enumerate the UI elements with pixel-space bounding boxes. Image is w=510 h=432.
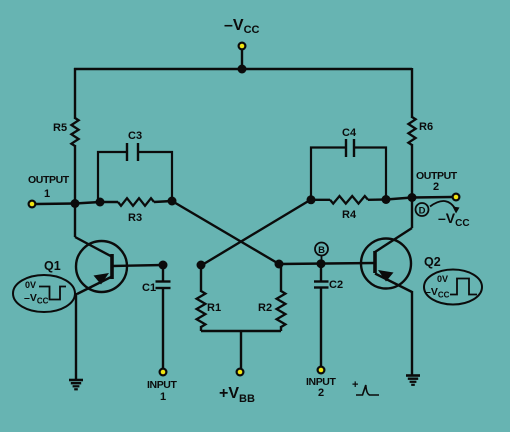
wire R1 bottom lead — [200, 326, 202, 331]
resistor R3 — [118, 198, 154, 206]
resistor R1 — [197, 291, 206, 327]
label -Vcc supply — [224, 17, 260, 36]
terminal -Vcc — [238, 42, 247, 51]
wire top rail — [74, 68, 412, 70]
annotation input2 trigger spike — [352, 379, 379, 395]
svg-text:C2: C2 — [329, 279, 343, 291]
label OUTPUT 2 — [416, 170, 458, 193]
node B — [315, 243, 328, 264]
wire VBB lead — [240, 331, 242, 368]
node junction collector1/cross — [168, 197, 177, 206]
node junction C4 right — [382, 195, 391, 204]
node junction C1 — [159, 261, 168, 270]
svg-text:R5: R5 — [53, 122, 67, 134]
svg-text:2: 2 — [318, 387, 324, 399]
terminal OUTPUT 2 — [452, 193, 461, 202]
wire output1 terminal — [36, 202, 75, 205]
wire R2 bottom lead — [280, 326, 282, 331]
label R1 — [207, 302, 221, 314]
node junction top rail — [238, 65, 247, 74]
svg-text:Q2: Q2 — [424, 255, 441, 269]
wire R6 to output2 node — [411, 144, 413, 198]
label +VBB — [219, 385, 255, 405]
svg-text:B: B — [318, 245, 325, 256]
transistor Q1 — [75, 237, 127, 294]
svg-text:R1: R1 — [207, 302, 221, 314]
wire R4 left lead — [311, 199, 330, 201]
terminal +VBB — [236, 368, 245, 377]
svg-text:C1: C1 — [142, 282, 156, 294]
svg-text:0V: 0V — [25, 280, 36, 290]
wire cross-couple collector2 to base1 — [202, 200, 311, 266]
wire R2 top lead — [280, 264, 282, 292]
wire R1 top lead — [200, 265, 202, 292]
label Q2 — [424, 255, 441, 269]
wire R4 right lead — [368, 198, 386, 201]
ground Q2 emitter — [406, 376, 420, 385]
label C1 — [142, 282, 156, 294]
resistor R2 — [277, 291, 286, 327]
label R6 — [419, 121, 433, 133]
resistor R4 — [330, 196, 368, 204]
node junction R2/base2 — [275, 260, 284, 269]
annotation Q1 waveform ellipse — [13, 275, 75, 312]
terminal INPUT 2 — [317, 366, 326, 375]
svg-text:OUTPUT: OUTPUT — [28, 174, 70, 186]
node junction C4 left — [307, 195, 316, 204]
wire C4 right to output2 node — [386, 198, 412, 200]
svg-text:Q1: Q1 — [44, 259, 61, 273]
svg-text:R6: R6 — [419, 121, 433, 133]
svg-text:1: 1 — [160, 391, 166, 403]
label -Vcc at node D — [438, 210, 470, 229]
svg-text:D: D — [419, 206, 426, 217]
wire R3 right lead — [154, 201, 172, 202]
label INPUT 1 — [147, 379, 177, 403]
wire Q2 emitter to ground — [411, 291, 413, 375]
svg-text:INPUT: INPUT — [147, 379, 177, 391]
wire output1 node to C3 box — [75, 202, 100, 204]
label R3 — [128, 212, 142, 224]
wire R3 left lead — [100, 201, 118, 203]
node junction output1 — [71, 199, 80, 208]
wire arrow arc to node D — [430, 201, 460, 213]
label R4 — [342, 209, 357, 221]
label OUTPUT 1 — [28, 174, 70, 200]
svg-text:R2: R2 — [258, 302, 272, 314]
resistor R6 — [408, 117, 415, 145]
wire cross-couple collector1 to base2 — [172, 201, 279, 264]
label R5 — [53, 122, 67, 134]
wire left rail drop — [74, 68, 76, 119]
wire Q1 base — [112, 265, 163, 266]
capacitor C2 — [314, 264, 329, 366]
capacitor C3 — [98, 143, 172, 202]
svg-text:C3: C3 — [128, 130, 142, 142]
wire Q1 emitter to ground — [75, 293, 77, 380]
svg-text:0V: 0V — [437, 274, 448, 284]
wire Q2 collector to output2 node — [411, 198, 413, 229]
wire R1-R2 bottom bus — [201, 330, 281, 332]
node junction C2 — [317, 259, 326, 268]
wire right rail drop — [411, 68, 413, 118]
wire output2 terminal — [412, 196, 452, 199]
label R2 — [258, 302, 272, 314]
svg-text:C4: C4 — [342, 127, 357, 139]
label INPUT 2 — [306, 376, 336, 399]
node D — [416, 203, 429, 217]
ground Q1 emitter — [69, 380, 83, 389]
label Q1 — [44, 259, 61, 273]
node junction R1/base1 — [197, 261, 206, 270]
label C4 — [342, 127, 357, 139]
label C3 — [128, 130, 142, 142]
svg-text:+: + — [352, 379, 358, 391]
wire output1 node to Q1 collector bend — [74, 204, 76, 238]
wire Q2 base bus — [279, 263, 375, 264]
svg-text:R4: R4 — [342, 209, 357, 221]
node junction C3 left — [96, 198, 105, 207]
transistor Q2 — [361, 228, 412, 292]
capacitor C4 — [311, 139, 386, 200]
svg-text:2: 2 — [433, 181, 439, 193]
wire -Vcc terminal to rail — [241, 49, 243, 69]
resistor R5 — [71, 118, 78, 146]
terminal OUTPUT 1 — [28, 200, 37, 209]
svg-text:R3: R3 — [128, 212, 142, 224]
label C2 — [329, 279, 343, 291]
annotation Q2 waveform ellipse — [424, 270, 482, 305]
node junction output2 — [408, 193, 417, 202]
wire R5 to output1 node — [74, 145, 76, 204]
terminal INPUT 1 — [159, 368, 168, 377]
svg-text:1: 1 — [44, 188, 50, 200]
capacitor C1 — [156, 265, 171, 368]
